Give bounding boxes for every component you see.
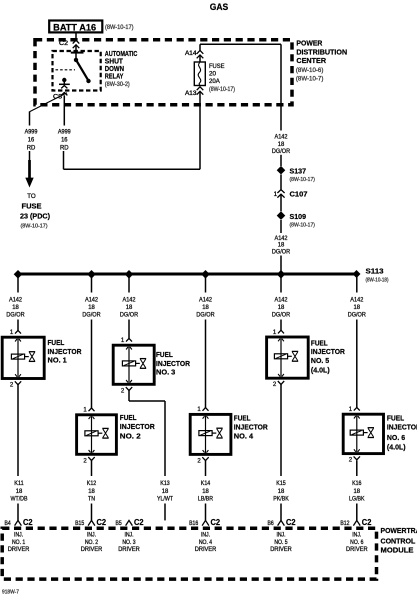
svg-text:INJECTOR: INJECTOR (48, 347, 82, 356)
svg-text:(8W-10-18): (8W-10-18) (366, 278, 389, 284)
svg-text:INJ.: INJ. (352, 533, 361, 539)
svg-text:NO. 6: NO. 6 (387, 433, 405, 442)
svg-text:18: 18 (354, 304, 361, 311)
svg-text:A13: A13 (185, 90, 197, 97)
svg-text:18: 18 (202, 488, 209, 495)
svg-text:NO. 5: NO. 5 (311, 356, 330, 365)
svg-text:INJ.: INJ. (87, 533, 96, 539)
svg-text:NO. 3: NO. 3 (122, 540, 136, 546)
svg-text:20: 20 (209, 70, 217, 77)
svg-text:1: 1 (83, 407, 87, 414)
svg-text:WT/DB: WT/DB (11, 495, 28, 502)
svg-text:2: 2 (83, 457, 87, 464)
svg-text:18: 18 (354, 488, 361, 495)
svg-text:A999: A999 (25, 130, 38, 136)
svg-text:DG/OR: DG/OR (272, 148, 291, 155)
svg-text:DG/OR: DG/OR (82, 311, 101, 318)
svg-text:RD: RD (60, 145, 69, 151)
svg-text:DG/OR: DG/OR (272, 248, 291, 255)
svg-text:INJ.: INJ. (124, 533, 133, 539)
svg-text:18: 18 (126, 304, 133, 311)
svg-text:18: 18 (162, 488, 169, 495)
svg-text:C107: C107 (290, 190, 308, 199)
svg-text:1: 1 (273, 329, 277, 336)
svg-text:INJECTOR: INJECTOR (387, 423, 417, 432)
svg-text:LG/BK: LG/BK (349, 495, 365, 502)
svg-text:SHUT: SHUT (105, 58, 124, 65)
svg-text:(8W-10-6): (8W-10-6) (296, 67, 324, 74)
svg-text:K12: K12 (87, 480, 97, 487)
svg-text:18: 18 (278, 304, 285, 311)
svg-text:NO. 4: NO. 4 (199, 540, 213, 546)
svg-text:CONTROL: CONTROL (381, 537, 416, 546)
svg-text:LB/BR: LB/BR (198, 495, 214, 502)
svg-text:NO. 4: NO. 4 (234, 432, 254, 441)
svg-text:NO. 2: NO. 2 (85, 540, 99, 546)
svg-text:TO: TO (27, 193, 36, 200)
svg-text:TN: TN (88, 495, 95, 502)
svg-text:918W-7: 918W-7 (2, 590, 19, 596)
svg-text:GAS: GAS (210, 2, 229, 13)
svg-text:(8W-10-17): (8W-10-17) (105, 25, 134, 31)
svg-text:B5: B5 (116, 521, 123, 527)
svg-text:18: 18 (88, 304, 95, 311)
svg-text:B12: B12 (340, 521, 350, 527)
svg-text:DOWN: DOWN (105, 66, 124, 73)
svg-text:(8W-30-2): (8W-30-2) (105, 81, 130, 88)
svg-text:INJ.: INJ. (14, 533, 23, 539)
svg-text:DG/OR: DG/OR (272, 311, 291, 318)
svg-text:MODULE: MODULE (381, 545, 414, 554)
svg-text:23 (PDC): 23 (PDC) (20, 212, 50, 221)
svg-text:(4.0L): (4.0L) (387, 442, 406, 451)
svg-text:INJECTOR: INJECTOR (311, 347, 345, 356)
svg-text:FUEL: FUEL (234, 413, 251, 422)
svg-text:RD: RD (27, 145, 36, 151)
svg-text:DG/OR: DG/OR (6, 311, 25, 318)
svg-text:DRIVER: DRIVER (270, 547, 292, 553)
svg-text:(8W-10-7): (8W-10-7) (296, 76, 324, 83)
svg-text:A142: A142 (275, 296, 289, 303)
svg-text:INJECTOR: INJECTOR (120, 422, 155, 431)
svg-text:B4: B4 (5, 521, 12, 527)
svg-text:A142: A142 (275, 134, 289, 141)
svg-text:AUTOMATIC: AUTOMATIC (105, 51, 138, 58)
svg-text:1: 1 (10, 329, 14, 336)
svg-text:B6: B6 (268, 521, 275, 527)
svg-text:DRIVER: DRIVER (8, 547, 30, 553)
svg-text:18: 18 (278, 141, 285, 148)
svg-text:(4.0L): (4.0L) (311, 365, 330, 374)
svg-text:S137: S137 (290, 166, 307, 175)
svg-text:DG/OR: DG/OR (196, 311, 215, 318)
svg-text:2: 2 (10, 382, 14, 389)
svg-text:C2: C2 (362, 518, 372, 527)
svg-text:C2: C2 (59, 40, 69, 47)
svg-text:C2: C2 (134, 518, 144, 527)
svg-text:NO. 1: NO. 1 (48, 356, 68, 365)
svg-text:A142: A142 (123, 296, 137, 303)
svg-text:S109: S109 (290, 212, 307, 221)
svg-text:A999: A999 (58, 130, 71, 136)
svg-text:DRIVER: DRIVER (195, 547, 217, 553)
svg-text:DRIVER: DRIVER (81, 547, 103, 553)
svg-text:DRIVER: DRIVER (346, 547, 368, 553)
svg-text:1: 1 (274, 191, 278, 198)
svg-text:2: 2 (349, 457, 353, 464)
svg-text:K13: K13 (160, 480, 170, 487)
svg-text:DG/OR: DG/OR (120, 311, 139, 318)
svg-text:K16: K16 (352, 480, 362, 487)
svg-text:1: 1 (349, 406, 353, 413)
svg-text:K11: K11 (14, 480, 24, 487)
svg-text:FUEL: FUEL (311, 338, 328, 347)
svg-text:CENTER: CENTER (296, 56, 326, 65)
svg-text:A14: A14 (185, 50, 197, 57)
svg-text:POWER: POWER (296, 39, 322, 48)
svg-text:INJECTOR: INJECTOR (234, 422, 268, 431)
svg-text:2: 2 (197, 457, 201, 464)
svg-text:18: 18 (16, 488, 23, 495)
svg-text:PK/BK: PK/BK (273, 495, 289, 502)
svg-text:FUSE: FUSE (22, 202, 42, 211)
svg-text:K14: K14 (201, 480, 211, 487)
svg-text:C2: C2 (211, 518, 221, 527)
svg-text:18: 18 (88, 488, 95, 495)
svg-text:18: 18 (278, 488, 285, 495)
svg-text:INJ.: INJ. (201, 533, 210, 539)
svg-text:B16: B16 (189, 521, 199, 527)
svg-text:DRIVER: DRIVER (118, 547, 140, 553)
svg-text:A142: A142 (199, 296, 213, 303)
svg-text:NO. 1: NO. 1 (12, 540, 26, 546)
svg-text:FUEL: FUEL (387, 413, 405, 422)
svg-text:18: 18 (202, 304, 209, 311)
svg-text:NO. 2: NO. 2 (120, 432, 141, 441)
svg-text:A142: A142 (85, 296, 99, 303)
svg-text:FUEL: FUEL (120, 413, 137, 422)
svg-text:NO. 6: NO. 6 (350, 540, 364, 546)
svg-text:A142: A142 (350, 296, 364, 303)
svg-text:NO. 3: NO. 3 (156, 368, 175, 377)
svg-text:BATT A16: BATT A16 (53, 23, 96, 33)
svg-text:1: 1 (121, 337, 125, 344)
svg-text:C2: C2 (23, 518, 33, 527)
svg-text:2: 2 (273, 381, 277, 388)
svg-text:FUEL: FUEL (156, 350, 173, 359)
svg-text:16: 16 (61, 137, 68, 143)
svg-text:16: 16 (28, 137, 35, 143)
svg-text:DG/OR: DG/OR (348, 311, 367, 318)
svg-text:NO. 5: NO. 5 (274, 540, 288, 546)
svg-text:2: 2 (121, 387, 125, 394)
svg-text:(8W-10-17): (8W-10-17) (290, 177, 316, 183)
svg-text:FUEL: FUEL (48, 338, 65, 347)
svg-text:20A: 20A (209, 78, 221, 85)
svg-text:INJECTOR: INJECTOR (156, 359, 190, 368)
svg-text:(8W-10-17): (8W-10-17) (290, 222, 316, 228)
svg-text:A142: A142 (9, 296, 23, 303)
svg-text:S113: S113 (366, 267, 384, 276)
svg-text:POWERTRAIN: POWERTRAIN (381, 526, 417, 535)
svg-text:K15: K15 (276, 480, 286, 487)
svg-text:FUSE: FUSE (209, 63, 225, 70)
svg-text:1: 1 (197, 406, 201, 413)
svg-text:(8W-10-17): (8W-10-17) (209, 87, 235, 93)
svg-text:18: 18 (12, 304, 19, 311)
svg-text:C2: C2 (286, 518, 296, 527)
svg-text:B15: B15 (75, 521, 85, 527)
svg-text:INJ.: INJ. (276, 533, 285, 539)
svg-text:(8W-10-17): (8W-10-17) (21, 224, 48, 230)
svg-text:C2: C2 (97, 518, 107, 527)
svg-text:YL/WT: YL/WT (157, 495, 173, 502)
svg-text:RELAY: RELAY (105, 73, 124, 80)
